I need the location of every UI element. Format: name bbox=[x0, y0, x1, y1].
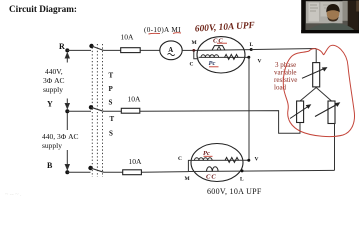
W1 pressure-coil line bbox=[199, 56, 249, 58]
W2 current coil symbol bbox=[207, 167, 219, 172]
W1 current-coil line through circle bbox=[198, 49, 252, 52]
svg-text:600V, 10A UPF: 600V, 10A UPF bbox=[207, 187, 262, 196]
wire Y switch to fuse bbox=[104, 110, 122, 112]
supply arrow R-Y upper bbox=[65, 53, 69, 63]
W2 series resistor bbox=[225, 157, 239, 162]
svg-text:L: L bbox=[250, 42, 254, 48]
W1 current coil symbol bbox=[212, 46, 225, 51]
svg-text:S: S bbox=[109, 99, 113, 107]
W1 M-C link bbox=[194, 50, 199, 58]
rheostat left (Y phase) bbox=[297, 101, 304, 123]
wire ammeter to wattmeter M bbox=[182, 49, 197, 51]
W2 Pc red underline bbox=[204, 155, 213, 157]
svg-text:T: T bbox=[109, 72, 114, 80]
svg-text:L: L bbox=[240, 177, 244, 183]
W1 series resistor bbox=[225, 54, 239, 59]
red annotation loop around load bbox=[283, 45, 354, 136]
W2 C-M link bbox=[188, 160, 192, 171]
svg-text:~ -- ~ .: ~ -- ~ . bbox=[5, 192, 22, 198]
W1 CC red underline bbox=[217, 42, 227, 44]
red underline MI bbox=[173, 32, 181, 35]
W2 pressure coil bumps bbox=[195, 158, 213, 161]
load feed R down bbox=[315, 49, 317, 63]
svg-text:T: T bbox=[110, 115, 115, 123]
wire B fuse to wattmeter W2 bbox=[141, 171, 188, 174]
wire R switch to fuse bbox=[104, 49, 121, 51]
switch pole Y bbox=[89, 105, 93, 109]
svg-text:B: B bbox=[47, 161, 53, 170]
wire B node to switch bbox=[67, 171, 91, 173]
star point wires bbox=[300, 88, 332, 102]
svg-text:supply: supply bbox=[42, 141, 62, 150]
W1 pressure coil bumps bbox=[201, 55, 219, 58]
svg-text:V: V bbox=[255, 157, 259, 163]
svg-text:supply: supply bbox=[43, 85, 63, 94]
supply arrow Y-B bbox=[65, 150, 69, 170]
svg-text:V: V bbox=[258, 59, 262, 65]
supply arrow R-Y lower bbox=[65, 99, 69, 109]
svg-text:600V, 10A UPF: 600V, 10A UPF bbox=[195, 21, 256, 35]
W2 current-coil line (B phase through) bbox=[188, 170, 334, 171]
svg-text:A: A bbox=[168, 47, 173, 54]
TPST switch dashed line 1 bbox=[91, 44, 93, 177]
svg-text:load: load bbox=[274, 84, 287, 92]
svg-text:Circuit Diagram:: Circuit Diagram: bbox=[9, 4, 77, 14]
wire B switch to fuse bbox=[104, 171, 123, 173]
red underline (0-10) bbox=[149, 32, 161, 35]
svg-text:CC: CC bbox=[206, 174, 217, 181]
ammeter A1 bbox=[160, 41, 182, 60]
svg-text:10A: 10A bbox=[129, 157, 143, 166]
wattmeter W2 bbox=[191, 144, 243, 182]
svg-text:10A: 10A bbox=[121, 33, 135, 42]
W1 Pc red underline bbox=[209, 66, 219, 68]
svg-text:Y: Y bbox=[47, 100, 53, 109]
svg-text:440, 3Φ AC: 440, 3Φ AC bbox=[42, 132, 79, 141]
svg-text:Pc: Pc bbox=[209, 60, 216, 67]
svg-text:P: P bbox=[109, 85, 114, 93]
svg-text:440V,: 440V, bbox=[45, 67, 63, 76]
wire Y node down bbox=[66, 113, 68, 130]
W2 pressure-coil line bbox=[192, 159, 249, 161]
svg-text:C: C bbox=[178, 156, 182, 162]
svg-text:R: R bbox=[59, 42, 65, 51]
wattmeter W1 bbox=[197, 37, 245, 73]
rheostat right (B phase) bbox=[328, 101, 335, 124]
svg-text:10A: 10A bbox=[128, 95, 142, 104]
TPST switch dashed line 2 bbox=[96, 44, 98, 177]
svg-text:M: M bbox=[192, 40, 198, 46]
svg-text:C: C bbox=[190, 62, 194, 68]
svg-text:3Φ AC: 3Φ AC bbox=[43, 76, 65, 85]
pressure-coil common wire (vertical to Y) bbox=[248, 57, 250, 160]
rheostat top (R phase) bbox=[313, 63, 320, 87]
wire Y node to switch bbox=[67, 110, 91, 112]
wire rheostat right to B line bbox=[334, 124, 336, 171]
wire W1 L to load (R phase) bbox=[251, 49, 316, 50]
TPST switch dashed line 3 bbox=[102, 44, 104, 177]
switch pole R bbox=[89, 44, 93, 48]
wire R fuse to ammeter bbox=[140, 49, 160, 51]
svg-text:M: M bbox=[185, 176, 191, 182]
webcam overlay bbox=[301, 0, 359, 33]
wire R node to switch bbox=[67, 49, 91, 51]
svg-text:S: S bbox=[109, 130, 113, 138]
switch pole B bbox=[88, 166, 92, 170]
wire Y fuse to load bbox=[140, 111, 300, 134]
